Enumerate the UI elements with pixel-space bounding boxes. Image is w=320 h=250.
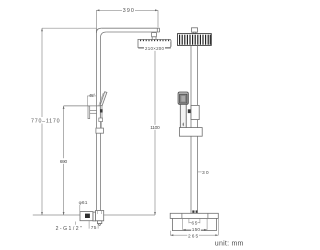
- dimension 770-1170 label: [30, 117, 61, 124]
- plate screw ticks: [182, 213, 208, 218]
- dimension 150: [183, 218, 207, 229]
- slide bar bracket cuff: [96, 128, 104, 133]
- svg-text:690: 690: [60, 159, 68, 165]
- hose line: [100, 122, 102, 129]
- slide bar (front view): [191, 45, 198, 213]
- dimension 690 label: [59, 158, 68, 164]
- valve top plate (front): [170, 213, 218, 218]
- svg-text:265: 265: [188, 233, 199, 239]
- dimension 75 ticks: [89, 221, 98, 229]
- dimension 30 leader: [198, 171, 202, 173]
- overhead shower head (side view): [138, 39, 171, 47]
- holder clamp knob: [100, 109, 103, 112]
- dimension 210x200 under head: [138, 42, 170, 48]
- handle knob dark: [85, 214, 90, 218]
- valve elbow (side): [96, 211, 104, 221]
- valve handle (side): [80, 212, 93, 221]
- hand shower face dark: [180, 94, 187, 103]
- bar mount nuts: [192, 210, 197, 213]
- svg-text:390: 390: [123, 8, 134, 14]
- svg-text:1100: 1100: [150, 125, 160, 131]
- slide bar shelf: [179, 128, 202, 137]
- svg-text:770–1170: 770–1170: [31, 119, 60, 125]
- hand shower handle (front): [180, 104, 186, 128]
- dimension 390 top: [96, 10, 158, 28]
- overhead shower head (front view): [178, 34, 212, 46]
- valve body (front): [172, 218, 216, 230]
- dimension 210x200 label: [144, 46, 165, 51]
- hand shower (side view, tilted): [100, 92, 107, 106]
- phi61 leader: [79, 205, 81, 212]
- holder clamp knob (front): [188, 109, 191, 113]
- svg-text:unit: mm: unit: mm: [215, 240, 244, 247]
- head connector nut (side): [152, 33, 157, 40]
- dimension 390 label: [122, 7, 135, 13]
- 2-G1/2 leader: [74, 222, 76, 225]
- wire: 770-1170 top extension line: [42, 27, 96, 29]
- 45 degree leader lines: [87, 96, 96, 106]
- hand shower inner edge: [99, 93, 104, 106]
- dimension 690 vertical line: [63, 106, 65, 215]
- svg-text:2-G1/2”: 2-G1/2”: [56, 226, 82, 232]
- right view: arm connector block: [192, 28, 198, 34]
- dimension 1100 label: [149, 125, 160, 130]
- svg-text:30: 30: [202, 170, 209, 176]
- head nozzle ticks (side): [141, 40, 169, 42]
- dimension 390 arrows: [96, 9, 158, 11]
- handle hole mark: [183, 122, 184, 126]
- svg-text:65: 65: [192, 220, 198, 225]
- svg-text:75: 75: [91, 225, 97, 231]
- hand shower handle (side): [100, 106, 102, 118]
- holder bracket (front view): [191, 105, 199, 119]
- dimension 65 ticks: [189, 218, 200, 223]
- wire: valve centre baseline right segment: [104, 214, 155, 216]
- head hatch bars (front): [180, 35, 211, 45]
- svg-text:150: 150: [192, 227, 201, 233]
- dimension 770-1170 vertical line: [41, 28, 43, 215]
- dimension 265 label: [187, 233, 199, 238]
- hand shower hose nut (side): [99, 118, 103, 122]
- svg-text:210×200: 210×200: [145, 46, 165, 51]
- valve body (side): [93, 212, 96, 221]
- shower arm top bend: [96, 28, 159, 38]
- elbow inner pipe lines: [97, 211, 99, 214]
- dimension 1100 line: [154, 48, 156, 216]
- hand shower head (front view): [178, 92, 188, 104]
- dimension 150 label: [191, 227, 201, 232]
- holder bracket (side view): [64, 106, 101, 119]
- wire: valve centre baseline: [33, 214, 80, 216]
- riser pipe (side view): [96, 28, 100, 210]
- dimension 265: [170, 219, 218, 236]
- valve outlet nub: [97, 221, 101, 224]
